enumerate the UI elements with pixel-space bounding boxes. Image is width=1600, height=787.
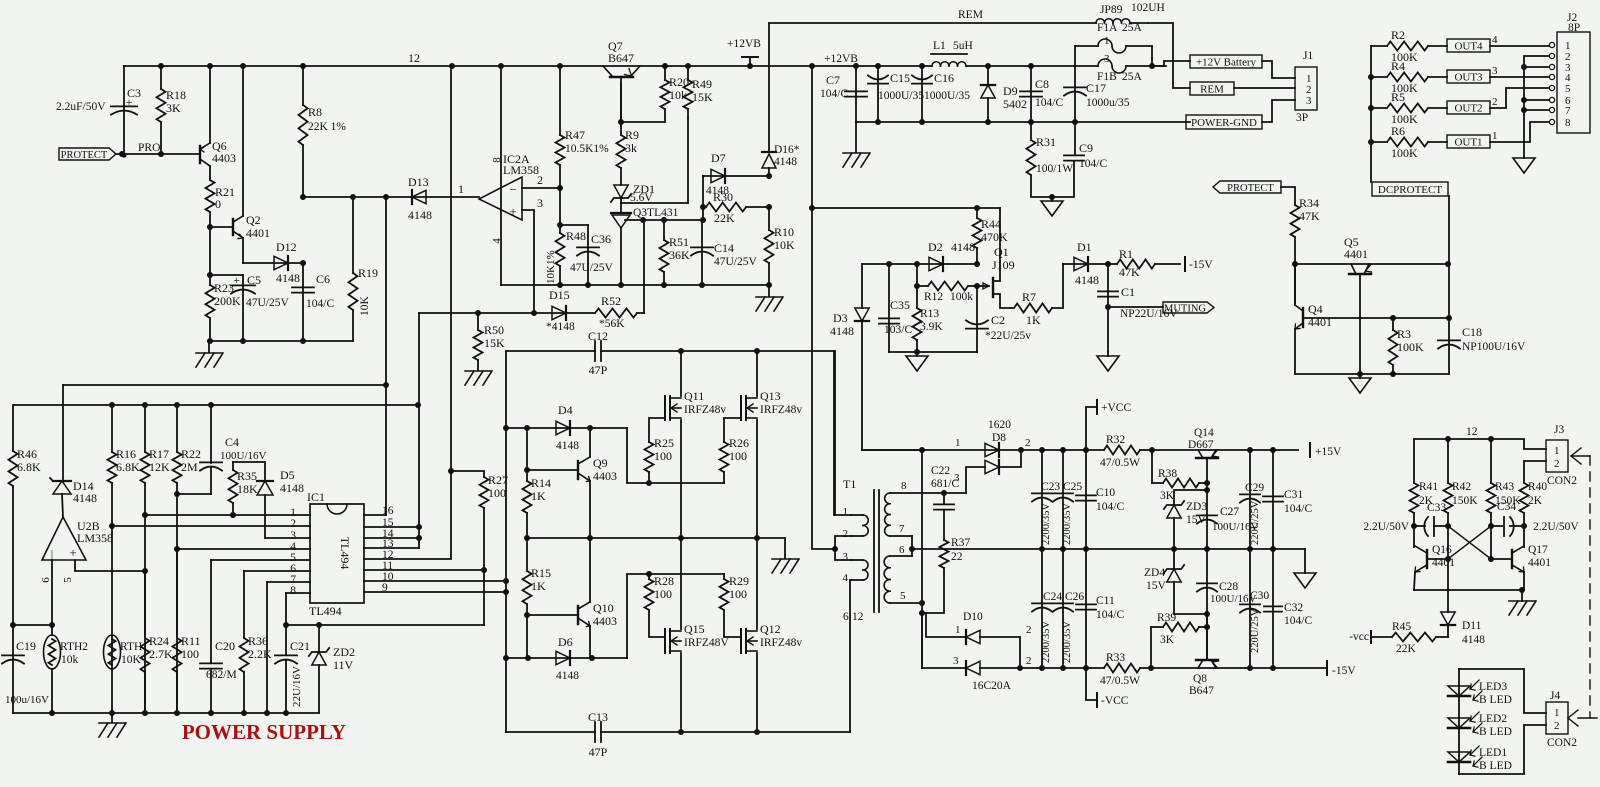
svg-text:4403: 4403	[593, 469, 617, 483]
svg-text:15K: 15K	[484, 336, 505, 350]
svg-text:22K: 22K	[1396, 643, 1417, 655]
svg-text:R45: R45	[1392, 621, 1411, 633]
svg-text:D1: D1	[1077, 240, 1092, 254]
svg-text:6.8K: 6.8K	[116, 460, 140, 474]
svg-text:Q16: Q16	[1432, 544, 1452, 556]
svg-text:R28: R28	[654, 574, 674, 588]
svg-text:3: 3	[1306, 95, 1312, 107]
svg-text:10k: 10k	[61, 654, 79, 666]
svg-text:PRO: PRO	[138, 142, 160, 154]
svg-text:R6: R6	[1391, 124, 1405, 138]
svg-text:C17: C17	[1086, 81, 1106, 95]
svg-text:C19: C19	[16, 639, 36, 653]
svg-text:2K: 2K	[1528, 495, 1543, 507]
svg-text:Q12: Q12	[760, 622, 781, 636]
svg-text:D3: D3	[833, 311, 848, 325]
svg-text:2: 2	[843, 528, 849, 540]
svg-text:2: 2	[537, 173, 543, 187]
svg-text:100: 100	[729, 587, 747, 601]
svg-text:+: +	[509, 204, 516, 219]
svg-text:ZD4: ZD4	[1144, 567, 1165, 579]
svg-text:2: 2	[1554, 720, 1560, 732]
svg-text:3K: 3K	[1160, 490, 1175, 502]
svg-text:R14: R14	[531, 476, 551, 490]
svg-text:2200/35V: 2200/35V	[1062, 621, 1073, 663]
svg-text:PROTECT: PROTECT	[1227, 183, 1274, 194]
svg-text:682/M: 682/M	[206, 669, 237, 681]
svg-text:15V: 15V	[1146, 580, 1167, 592]
svg-text:12K: 12K	[149, 460, 170, 474]
svg-text:R34: R34	[1299, 196, 1319, 210]
svg-text:B LED: B LED	[1479, 694, 1512, 706]
svg-text:470K: 470K	[981, 230, 1008, 244]
svg-text:10K: 10K	[121, 654, 142, 666]
svg-text:JP89: JP89	[1100, 4, 1123, 16]
svg-text:DCPROTECT: DCPROTECT	[1378, 184, 1442, 196]
svg-text:22K 1%: 22K 1%	[308, 121, 346, 133]
svg-text:POWER SUPPLY: POWER SUPPLY	[182, 720, 346, 744]
svg-text:IRFZ48V: IRFZ48V	[684, 637, 729, 649]
svg-text:R30: R30	[713, 190, 733, 204]
svg-text:-VCC: -VCC	[1101, 695, 1129, 707]
svg-text:−: −	[509, 182, 516, 197]
svg-text:2: 2	[1026, 655, 1032, 667]
svg-text:TL494: TL494	[309, 604, 342, 618]
svg-text:104/C: 104/C	[1096, 501, 1124, 513]
svg-text:36K: 36K	[669, 248, 690, 262]
svg-text:4148: 4148	[280, 481, 304, 495]
svg-text:4401: 4401	[1432, 557, 1455, 569]
svg-text:10k: 10k	[669, 88, 687, 102]
svg-text:R41: R41	[1419, 481, 1438, 493]
svg-text:R2: R2	[1391, 28, 1405, 42]
svg-text:4148: 4148	[276, 271, 300, 285]
svg-text:B647: B647	[1189, 685, 1214, 697]
svg-text:TL494: TL494	[338, 537, 352, 570]
svg-text:6: 6	[40, 577, 52, 583]
svg-text:R38: R38	[1158, 468, 1177, 480]
svg-text:R33: R33	[1106, 652, 1125, 664]
svg-text:+: +	[69, 545, 76, 560]
svg-text:15K: 15K	[692, 90, 713, 104]
svg-text:C31: C31	[1284, 489, 1303, 501]
svg-text:C21: C21	[290, 639, 310, 653]
svg-text:200K: 200K	[214, 294, 241, 308]
svg-text:J4: J4	[1550, 690, 1560, 702]
svg-text:3: 3	[954, 472, 960, 484]
svg-text:R46: R46	[17, 447, 37, 461]
svg-text:Q4: Q4	[1308, 302, 1323, 316]
svg-text:R16: R16	[116, 447, 136, 461]
svg-text:J109: J109	[992, 258, 1015, 272]
svg-text:22U/16V: 22U/16V	[291, 666, 303, 707]
svg-text:C26: C26	[1065, 591, 1084, 603]
svg-text:C28: C28	[1219, 581, 1238, 593]
svg-text:D4: D4	[558, 403, 573, 417]
svg-text:C14: C14	[714, 241, 734, 255]
svg-text:-15V: -15V	[1189, 259, 1213, 271]
svg-text:Q14: Q14	[1194, 427, 1214, 439]
svg-text:2.2U/50V: 2.2U/50V	[1363, 521, 1409, 533]
svg-text:CON2: CON2	[1547, 737, 1577, 749]
svg-text:R7: R7	[1022, 290, 1036, 304]
svg-text:104/C: 104/C	[1079, 158, 1107, 170]
svg-text:R43: R43	[1495, 481, 1514, 493]
svg-text:D8: D8	[992, 432, 1006, 444]
svg-text:100: 100	[181, 647, 199, 661]
svg-text:REM: REM	[1200, 84, 1224, 96]
svg-text:12: 12	[1466, 426, 1478, 438]
svg-text:3P: 3P	[1296, 112, 1308, 124]
svg-text:18K: 18K	[237, 482, 258, 496]
svg-text:D5: D5	[280, 468, 295, 482]
svg-text:C16: C16	[934, 71, 954, 85]
svg-text:C15: C15	[890, 71, 910, 85]
svg-text:4148: 4148	[830, 324, 854, 338]
svg-text:-15V: -15V	[1332, 665, 1356, 677]
svg-text:C5: C5	[247, 273, 261, 287]
svg-text:+: +	[126, 95, 133, 109]
svg-text:C29: C29	[1245, 482, 1264, 494]
svg-text:NP100U/16V: NP100U/16V	[1462, 341, 1526, 353]
svg-text:Q3TL431: Q3TL431	[633, 207, 679, 219]
svg-text:4148: 4148	[556, 670, 579, 682]
svg-text:2: 2	[1554, 458, 1560, 470]
svg-text:R35: R35	[237, 469, 257, 483]
svg-text:R3: R3	[1397, 327, 1411, 341]
svg-text:L1: L1	[933, 40, 946, 52]
svg-text:100/1W: 100/1W	[1036, 163, 1073, 175]
svg-text:R9: R9	[625, 128, 639, 142]
svg-text:R36: R36	[248, 634, 268, 648]
svg-text:8P: 8P	[1568, 22, 1580, 34]
svg-text:R50: R50	[484, 323, 504, 337]
svg-text:R27: R27	[488, 473, 508, 487]
svg-text:Q11: Q11	[684, 389, 704, 403]
svg-text:100U/16V: 100U/16V	[220, 450, 267, 462]
svg-text:1000u/35: 1000u/35	[1086, 97, 1130, 109]
svg-text:2.7K: 2.7K	[149, 647, 173, 661]
svg-text:4148: 4148	[408, 208, 432, 222]
svg-text:C12: C12	[588, 329, 608, 343]
svg-text:R8: R8	[308, 105, 322, 119]
svg-text:LM358: LM358	[77, 531, 113, 545]
svg-text:RTH1: RTH1	[120, 641, 148, 653]
svg-text:1: 1	[1104, 35, 1110, 47]
svg-text:2.2U/50V: 2.2U/50V	[1533, 521, 1579, 533]
svg-text:R24: R24	[149, 634, 169, 648]
svg-text:LM358: LM358	[503, 163, 539, 177]
svg-text:3: 3	[953, 655, 959, 667]
svg-text:5uH: 5uH	[953, 40, 973, 52]
svg-text:C13: C13	[588, 710, 608, 724]
svg-text:C1: C1	[1121, 285, 1135, 299]
svg-text:+12VB: +12VB	[824, 53, 858, 65]
svg-text:1: 1	[1554, 445, 1560, 457]
svg-text:10K: 10K	[359, 296, 371, 317]
svg-text:3: 3	[843, 551, 849, 563]
svg-text:100K: 100K	[1397, 340, 1424, 354]
svg-text:OUT3: OUT3	[1454, 72, 1483, 84]
svg-text:REM: REM	[958, 9, 983, 21]
svg-text:R15: R15	[531, 566, 551, 580]
svg-text:220U/25V: 220U/25V	[1250, 500, 1261, 545]
svg-text:4148: 4148	[73, 491, 97, 505]
svg-text:R5: R5	[1391, 90, 1405, 104]
svg-text:Q9: Q9	[593, 456, 608, 470]
svg-text:7: 7	[1565, 105, 1571, 117]
svg-text:2: 2	[1025, 437, 1031, 449]
svg-text:5: 5	[1565, 83, 1571, 95]
svg-text:D11: D11	[1462, 620, 1482, 632]
svg-text:R13: R13	[920, 308, 939, 320]
svg-text:ZD3: ZD3	[1186, 501, 1207, 513]
svg-text:B LED: B LED	[1479, 760, 1512, 772]
svg-text:6.8K: 6.8K	[17, 460, 41, 474]
svg-text:C7: C7	[826, 73, 840, 87]
svg-text:1000U/35: 1000U/35	[878, 90, 924, 102]
svg-text:R51: R51	[669, 235, 689, 249]
svg-text:8: 8	[1565, 117, 1571, 129]
svg-text:C23: C23	[1041, 481, 1060, 493]
svg-text:25A: 25A	[1122, 71, 1143, 83]
svg-text:R47: R47	[565, 128, 585, 142]
svg-text:+12V Battery: +12V Battery	[1196, 57, 1257, 69]
svg-text:2: 2	[1492, 96, 1498, 108]
svg-text:100u/16V: 100u/16V	[5, 694, 49, 706]
svg-text:R4: R4	[1391, 59, 1405, 73]
svg-text:C6: C6	[316, 272, 330, 286]
svg-text:POWER-GND: POWER-GND	[1191, 117, 1257, 129]
svg-text:104/C: 104/C	[306, 298, 334, 310]
svg-text:IRFZ48v: IRFZ48v	[684, 404, 726, 416]
svg-text:Q13: Q13	[760, 389, 781, 403]
svg-text:C32: C32	[1284, 602, 1303, 614]
svg-text:C36: C36	[591, 232, 611, 246]
svg-text:C30: C30	[1250, 590, 1269, 602]
svg-text:1K: 1K	[531, 579, 546, 593]
svg-text:104/C: 104/C	[1035, 97, 1063, 109]
svg-text:R12: R12	[924, 291, 943, 303]
svg-text:5: 5	[62, 577, 74, 583]
svg-text:D13: D13	[408, 175, 429, 189]
svg-text:OUT4: OUT4	[1454, 41, 1483, 53]
svg-text:47U/25V: 47U/25V	[246, 297, 290, 309]
svg-text:2: 2	[290, 518, 296, 530]
svg-text:4401: 4401	[1528, 557, 1551, 569]
svg-text:2200/35V: 2200/35V	[1041, 503, 1052, 545]
svg-text:0: 0	[215, 197, 221, 211]
svg-text:R25: R25	[654, 436, 674, 450]
svg-text:R26: R26	[729, 436, 749, 450]
svg-text:J1: J1	[1303, 50, 1313, 62]
svg-text:R39: R39	[1157, 612, 1176, 624]
svg-text:C34: C34	[1497, 501, 1516, 513]
svg-text:220U/25V: 220U/25V	[1250, 608, 1261, 653]
svg-text:R19: R19	[358, 266, 378, 280]
svg-text:3.9K: 3.9K	[920, 321, 943, 333]
svg-text:C33: C33	[1427, 502, 1446, 514]
svg-text:3: 3	[537, 196, 543, 210]
svg-text:C24: C24	[1043, 591, 1062, 603]
svg-text:LED1: LED1	[1479, 747, 1507, 759]
svg-text:C8: C8	[1035, 77, 1049, 91]
svg-text:IRFZ48v: IRFZ48v	[760, 404, 802, 416]
svg-text:3k: 3k	[625, 141, 637, 155]
svg-text:R22: R22	[181, 447, 201, 461]
svg-text:R1: R1	[1119, 247, 1133, 261]
svg-text:10K1%: 10K1%	[545, 250, 557, 284]
svg-text:D15: D15	[549, 288, 570, 302]
svg-text:IRFZ48v: IRFZ48v	[760, 637, 802, 649]
svg-text:12: 12	[408, 51, 420, 65]
svg-text:R52: R52	[601, 294, 621, 308]
svg-text:R18: R18	[166, 88, 186, 102]
svg-text:T1: T1	[843, 477, 856, 491]
svg-text:3K: 3K	[1160, 634, 1175, 646]
svg-text:8: 8	[290, 585, 296, 597]
svg-text:7: 7	[899, 523, 905, 535]
svg-text:OUT1: OUT1	[1454, 137, 1482, 149]
svg-text:-vcc: -vcc	[1349, 631, 1369, 643]
svg-text:D7: D7	[711, 151, 726, 165]
svg-text:25A: 25A	[1122, 22, 1143, 34]
svg-text:104/C: 104/C	[1284, 615, 1312, 627]
svg-text:C22: C22	[931, 465, 950, 477]
svg-text:100: 100	[729, 449, 747, 463]
svg-text:3: 3	[1492, 65, 1498, 77]
svg-text:F1A: F1A	[1097, 22, 1118, 34]
svg-text:D10: D10	[963, 611, 983, 623]
svg-text:Q2: Q2	[246, 213, 261, 227]
svg-text:10K: 10K	[774, 238, 795, 252]
svg-text:47P: 47P	[589, 363, 608, 377]
svg-text:2.2K: 2.2K	[248, 647, 272, 661]
svg-text:4: 4	[1492, 34, 1498, 46]
svg-text:1620: 1620	[988, 419, 1011, 431]
svg-text:47/0.5W: 47/0.5W	[1100, 675, 1140, 687]
svg-text:2.2uF/50V: 2.2uF/50V	[56, 101, 106, 113]
svg-text:5: 5	[900, 590, 906, 602]
svg-text:5402: 5402	[1003, 97, 1027, 111]
svg-text:R48: R48	[566, 229, 586, 243]
svg-text:Q1: Q1	[994, 245, 1009, 259]
svg-text:4148: 4148	[1075, 273, 1099, 287]
svg-text:LED3: LED3	[1479, 681, 1507, 693]
svg-text:OUT2: OUT2	[1454, 103, 1482, 115]
svg-text:16C20A: 16C20A	[972, 680, 1012, 692]
svg-text:47P: 47P	[589, 745, 608, 759]
svg-text:100: 100	[488, 486, 506, 500]
svg-text:4403: 4403	[593, 614, 617, 628]
svg-text:1: 1	[458, 182, 464, 196]
svg-text:2M: 2M	[181, 460, 198, 474]
svg-text:R49: R49	[692, 77, 712, 91]
svg-text:100K: 100K	[1391, 146, 1418, 160]
svg-text:1: 1	[955, 624, 961, 636]
svg-text:4403: 4403	[212, 151, 236, 165]
svg-text:R44: R44	[981, 217, 1001, 231]
svg-text:22: 22	[951, 551, 963, 563]
svg-text:R29: R29	[729, 574, 749, 588]
svg-text:C4: C4	[225, 435, 239, 449]
svg-text:1000U/35: 1000U/35	[924, 90, 970, 102]
svg-text:47K: 47K	[1119, 265, 1140, 279]
svg-text:6: 6	[899, 544, 905, 556]
svg-text:D6: D6	[558, 635, 573, 649]
svg-text:R11: R11	[181, 634, 201, 648]
svg-text:1: 1	[843, 506, 849, 518]
svg-text:D2: D2	[928, 240, 943, 254]
svg-text:10.5K1%: 10.5K1%	[565, 143, 609, 155]
svg-text:100: 100	[654, 587, 672, 601]
svg-text:C27: C27	[1220, 506, 1239, 518]
svg-text:Q17: Q17	[1528, 544, 1548, 556]
svg-text:MUTING: MUTING	[1164, 304, 1206, 315]
svg-text:R42: R42	[1452, 481, 1471, 493]
svg-text:J3: J3	[1554, 424, 1564, 436]
svg-text:CON2: CON2	[1547, 475, 1577, 487]
svg-text:1K: 1K	[1026, 313, 1041, 327]
svg-text:1: 1	[1492, 130, 1498, 142]
svg-text:C18: C18	[1462, 325, 1482, 339]
svg-text:R40: R40	[1528, 481, 1547, 493]
svg-text:Q8: Q8	[1193, 673, 1207, 685]
svg-text:PROTECT: PROTECT	[61, 150, 108, 161]
svg-text:4148: 4148	[1462, 634, 1485, 646]
svg-text:+12VB: +12VB	[727, 38, 761, 50]
svg-text:R10: R10	[774, 225, 794, 239]
svg-text:4401: 4401	[246, 226, 270, 240]
svg-text:+15V: +15V	[1315, 446, 1342, 458]
svg-text:C20: C20	[215, 639, 235, 653]
svg-text:LED2: LED2	[1479, 713, 1507, 725]
svg-text:R23: R23	[214, 281, 234, 295]
svg-text:R37: R37	[951, 537, 970, 549]
svg-text:C10: C10	[1096, 487, 1115, 499]
svg-text:104/C: 104/C	[1096, 609, 1124, 621]
svg-text:1: 1	[955, 437, 961, 449]
svg-text:1: 1	[1554, 707, 1560, 719]
svg-text:3K: 3K	[166, 101, 181, 115]
svg-text:102UH: 102UH	[1131, 2, 1165, 14]
svg-text:C25: C25	[1063, 481, 1082, 493]
svg-text:47K: 47K	[1299, 209, 1320, 223]
svg-text:D12: D12	[276, 240, 297, 254]
svg-text:D9: D9	[1003, 84, 1018, 98]
svg-text:*22U/25v: *22U/25v	[985, 330, 1031, 342]
svg-text:2200/35V: 2200/35V	[1041, 621, 1052, 663]
svg-text:4401: 4401	[1344, 247, 1368, 261]
svg-text:*4148: *4148	[546, 321, 575, 333]
svg-text:4148: 4148	[556, 440, 579, 452]
svg-text:4148: 4148	[951, 240, 975, 254]
svg-text:B647: B647	[608, 51, 634, 65]
svg-text:R32: R32	[1106, 434, 1125, 446]
svg-text:3: 3	[1104, 53, 1110, 65]
svg-text:100: 100	[654, 449, 672, 463]
svg-text:4: 4	[843, 572, 849, 584]
svg-text:R31: R31	[1036, 135, 1056, 149]
svg-text:4148: 4148	[774, 156, 797, 168]
svg-text:104/C: 104/C	[820, 88, 848, 100]
svg-text:8: 8	[901, 480, 907, 492]
svg-text:D16*: D16*	[774, 144, 800, 156]
svg-text:47/0.5W: 47/0.5W	[1100, 457, 1140, 469]
svg-text:11V: 11V	[333, 658, 354, 672]
svg-text:100k: 100k	[950, 291, 973, 303]
svg-text:R17: R17	[149, 447, 169, 461]
